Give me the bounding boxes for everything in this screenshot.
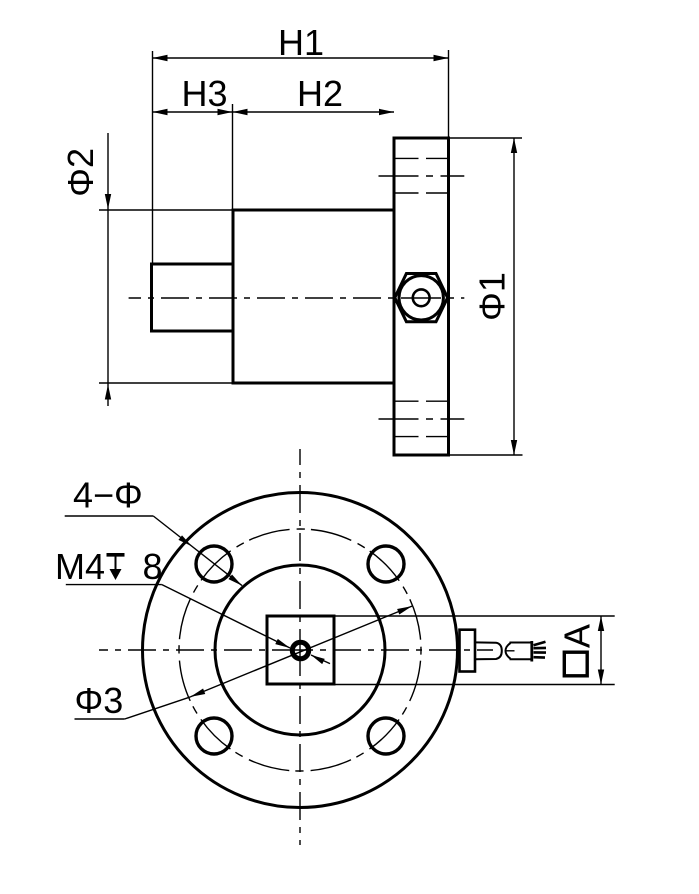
svg-text:M4: M4 bbox=[55, 546, 105, 587]
svg-text:H3: H3 bbox=[181, 73, 227, 114]
svg-text:Φ3: Φ3 bbox=[75, 680, 124, 721]
svg-text:Φ1: Φ1 bbox=[472, 272, 513, 321]
svg-text:H2: H2 bbox=[297, 73, 343, 114]
svg-text:A: A bbox=[557, 624, 598, 648]
svg-text:8: 8 bbox=[143, 546, 163, 587]
svg-text:Φ2: Φ2 bbox=[60, 148, 101, 197]
svg-text:4−Φ: 4−Φ bbox=[73, 475, 143, 516]
svg-text:H1: H1 bbox=[278, 22, 324, 63]
